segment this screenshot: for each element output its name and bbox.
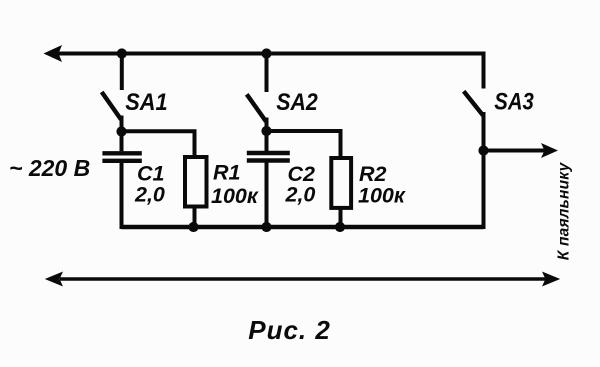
node: bottom rail / R2 junction bbox=[335, 222, 345, 232]
wire: output arrow stem from SA3 node bbox=[484, 149, 546, 153]
capacitor C1 top plate bbox=[102, 151, 141, 155]
svg-text:R2: R2 bbox=[359, 162, 387, 186]
svg-text:R1: R1 bbox=[213, 161, 240, 185]
wire: R2 bottom lead bbox=[339, 208, 343, 229]
svg-text:100к: 100к bbox=[211, 184, 259, 208]
wire: bottom measurement arrow shaft bbox=[60, 277, 546, 281]
node: top rail / SA2 junction bbox=[261, 48, 271, 58]
wire: SA1 lower lead bbox=[120, 116, 124, 135]
switch SA1 blade bbox=[102, 92, 121, 119]
wire: node SA2 to R2 top bbox=[267, 131, 341, 158]
node: SA1 / C1 / R1 junction bbox=[116, 126, 126, 136]
wire: top rail bbox=[52, 52, 484, 56]
capacitor C2 top plate bbox=[247, 151, 290, 155]
svg-text:SA1: SA1 bbox=[125, 89, 167, 116]
switch SA2 blade bbox=[247, 94, 266, 121]
wire: bottom rail bbox=[122, 225, 484, 230]
resistor R1 body bbox=[185, 157, 207, 207]
capacitor C1 bottom plate bbox=[102, 159, 141, 163]
node: SA3 / output junction bbox=[478, 145, 488, 155]
wire: R1 bottom lead bbox=[193, 207, 197, 230]
arrowhead: top rail left (mains feed) bbox=[44, 45, 63, 62]
capacitor C2 bottom plate bbox=[247, 158, 290, 162]
resistor R2 body bbox=[331, 158, 351, 208]
capacitor C2 bottom lead bbox=[265, 163, 269, 230]
node: SA2 / C2 / R2 junction bbox=[261, 126, 271, 136]
svg-text:К паяльнику: К паяльнику bbox=[556, 161, 573, 260]
switch SA3 blade bbox=[464, 91, 483, 115]
svg-text:2,0: 2,0 bbox=[285, 183, 316, 207]
svg-text:Рис. 2: Рис. 2 bbox=[248, 315, 330, 345]
node: top rail / SA1 junction bbox=[117, 48, 127, 58]
wire: SA2 upper lead bbox=[265, 54, 269, 93]
node: bottom rail / R1 junction bbox=[188, 222, 198, 232]
wire: node SA1 to R1 top bbox=[122, 131, 195, 157]
capacitor C1 bottom lead bbox=[120, 163, 124, 229]
wire: SA2 lower lead bbox=[265, 118, 269, 135]
svg-text:100к: 100к bbox=[358, 184, 406, 208]
arrowhead: bottom arrow right bbox=[542, 272, 560, 287]
capacitor C1 top lead bbox=[120, 132, 124, 152]
wire: top rail right corner drop to SA3 bbox=[482, 52, 486, 89]
capacitor C2 top lead bbox=[265, 131, 269, 151]
svg-text:2,0: 2,0 bbox=[134, 183, 165, 207]
svg-text:SA3: SA3 bbox=[494, 89, 534, 116]
arrowhead: bottom arrow left bbox=[45, 272, 63, 287]
svg-text:SA2: SA2 bbox=[276, 89, 318, 116]
node: bottom rail / C2 junction bbox=[261, 222, 271, 232]
wire: SA3 lower lead down to bottom rail bbox=[482, 112, 486, 229]
wire: SA1 upper lead bbox=[120, 54, 124, 91]
arrowhead: output to soldering iron bbox=[541, 143, 558, 158]
svg-text:~ 220 В: ~ 220 В bbox=[9, 155, 90, 181]
